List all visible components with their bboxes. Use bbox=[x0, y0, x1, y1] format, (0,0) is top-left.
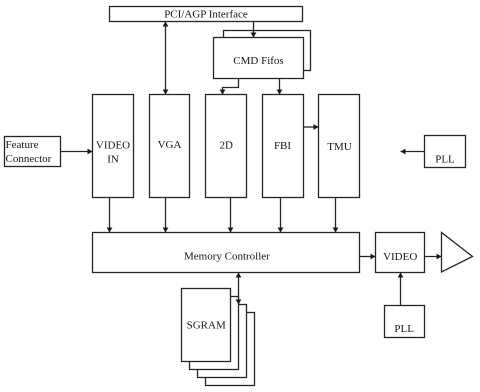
svg-text:PLL: PLL bbox=[435, 154, 455, 166]
svg-text:Memory Controller: Memory Controller bbox=[184, 251, 270, 263]
svg-text:TMU: TMU bbox=[327, 141, 352, 153]
svg-text:VGA: VGA bbox=[158, 139, 182, 151]
svg-text:2D: 2D bbox=[219, 140, 233, 152]
svg-text:VIDEO: VIDEO bbox=[383, 251, 417, 263]
svg-text:PCI/AGP Interface: PCI/AGP Interface bbox=[164, 9, 248, 21]
svg-text:CMD Fifos: CMD Fifos bbox=[233, 55, 283, 67]
svg-text:IN: IN bbox=[107, 154, 119, 166]
svg-text:SGRAM: SGRAM bbox=[187, 320, 226, 332]
svg-text:FBI: FBI bbox=[274, 140, 291, 152]
svg-text:Connector: Connector bbox=[6, 153, 52, 165]
svg-text:Feature: Feature bbox=[6, 139, 39, 151]
svg-text:VIDEO: VIDEO bbox=[96, 140, 130, 152]
svg-text:PLL: PLL bbox=[394, 323, 414, 335]
